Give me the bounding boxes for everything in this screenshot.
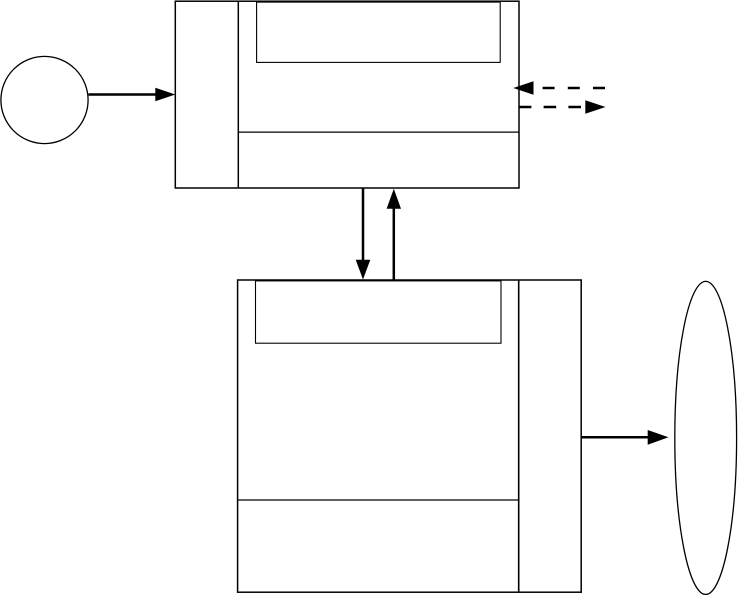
upper box inner header rectangle <box>257 2 501 62</box>
lower box horizontal divider <box>238 499 519 501</box>
upper box outer rectangle <box>175 1 519 188</box>
dashed arrow pointing right out of upper box <box>519 100 606 113</box>
upper box left column divider <box>237 1 239 188</box>
circle: source node <box>1 56 88 143</box>
upper box horizontal divider <box>238 131 519 133</box>
lower box inner header rectangle <box>256 281 502 343</box>
lower box outer rectangle <box>238 280 582 592</box>
down arrow from upper box to lower box <box>356 189 371 280</box>
lower box right column divider <box>518 280 520 592</box>
arrow from lower box to ellipse <box>581 430 668 445</box>
up arrow from lower box to upper box <box>387 189 401 280</box>
dashed arrow pointing left into upper box <box>513 81 605 94</box>
arrow from circle to upper box <box>89 88 176 101</box>
ellipse: data store <box>675 281 737 594</box>
